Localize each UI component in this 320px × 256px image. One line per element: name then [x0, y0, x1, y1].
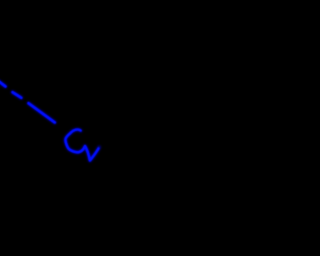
core layer [0, 81, 99, 161]
wire dash segment 2 (glow) [13, 92, 22, 98]
wire dash segment 3 (glow) [29, 103, 55, 122]
glow layer [0, 81, 99, 161]
wire dash segment 1 (glow) [0, 81, 6, 87]
wire dash segment 2 [13, 92, 22, 98]
wire dash segment 3 [29, 103, 55, 122]
capacitor label Cv [65, 129, 98, 160]
wire dash segment 1 [0, 81, 6, 87]
capacitor label Cv (glow) [65, 129, 99, 160]
